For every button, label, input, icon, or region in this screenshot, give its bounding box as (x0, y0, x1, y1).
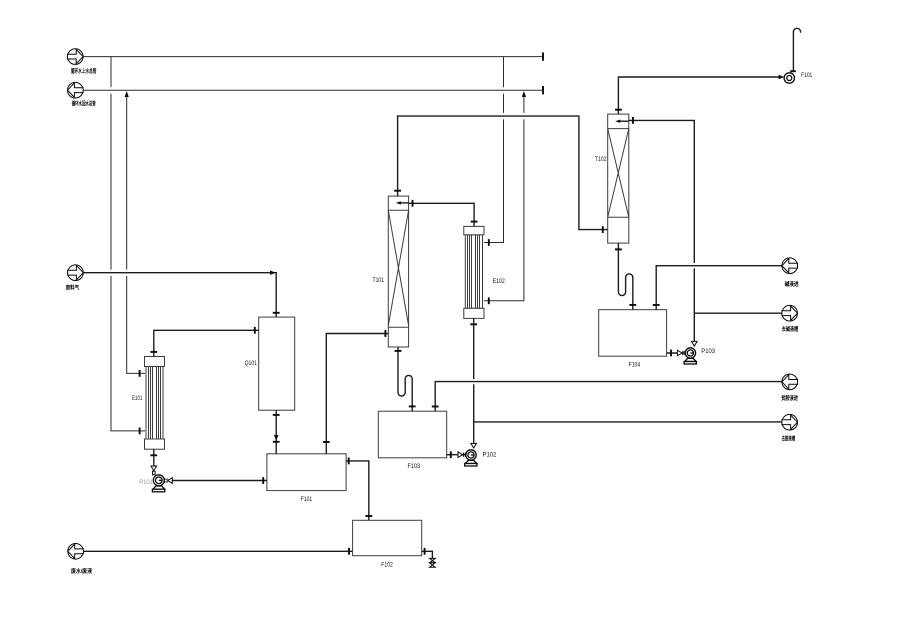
heat exchanger E101 (145, 357, 165, 450)
label E101 (132, 395, 143, 402)
wire: E102 shell bottom outlet riser to return header (484, 91, 526, 304)
label F102 (381, 561, 393, 568)
label T101 (373, 277, 385, 284)
svg-text:P101: P101 (139, 479, 153, 486)
pump P102 (465, 450, 477, 466)
off-page connector: cooling water supply (left top) (68, 49, 84, 65)
wire: F101 right nozzle to F102 top (346, 458, 372, 521)
svg-text:T102: T102 (595, 156, 607, 163)
label F103 (408, 463, 421, 470)
pump P103 (684, 348, 696, 364)
svg-text:F101: F101 (801, 72, 812, 79)
svg-text:T101: T101 (373, 277, 385, 284)
wire: cooling water return header (83, 86, 543, 94)
drain funnel at F102 outlet (430, 558, 436, 567)
svg-text:F102: F102 (381, 561, 393, 568)
vessel F104 (599, 310, 667, 357)
label P102 (483, 451, 497, 458)
packed column T101 (388, 196, 408, 347)
wire: Q101 bottom to F101 top (273, 410, 280, 454)
svg-text:去碱液槽: 去碱液槽 (782, 325, 799, 333)
off-page connector: waste water out (left bottom) (68, 544, 84, 560)
wire: T102 overhead to blower (615, 75, 784, 114)
label F104 (629, 361, 641, 368)
svg-text:原料气: 原料气 (66, 283, 80, 291)
svg-text:P102: P102 (483, 451, 497, 458)
svg-text:贫胺液进: 贫胺液进 (780, 394, 798, 402)
label: cooling water return (72, 100, 96, 108)
label: cooling water supply (71, 67, 97, 75)
svg-text:F103: F103 (408, 463, 421, 470)
wire: T101 top vapor to E102 (409, 200, 478, 227)
wire: riser from supply header to E101 shell bottom (111, 57, 145, 435)
wire: T102 bottoms seal loop to F104 (615, 243, 636, 310)
off-page connector: amine out (right, y=422) (782, 414, 798, 430)
svg-text:Q101: Q101 (245, 360, 258, 367)
vessel F102 (353, 520, 422, 555)
label F101 (blower) (801, 72, 812, 79)
label F101 (301, 496, 313, 503)
svg-text:E102: E102 (493, 278, 505, 285)
wire: caustic in from right connector to F104 (653, 266, 782, 310)
label Q101 (245, 360, 258, 367)
vessel F103 (378, 411, 446, 458)
wire: F102 right nozzle to drain (422, 548, 433, 559)
wire: T101 bottoms seal loop to F103 (395, 347, 416, 411)
wire: lean amine from right connector to F103 (432, 382, 782, 412)
wire: P103 discharge branch to right connector (694, 312, 782, 314)
label: lean amine in (780, 394, 798, 402)
label: waste water (71, 567, 93, 575)
wire: F104 outlet to pump P103 (667, 350, 686, 357)
svg-text:碱液进: 碱液进 (785, 280, 800, 288)
label: caustic in (785, 280, 800, 288)
wire: riser from supply header to E102 shell top (484, 57, 504, 246)
wire: cooling water supply header (83, 52, 543, 60)
label: feed gas (66, 283, 80, 291)
off-page connector: cooling water return (left) (68, 82, 84, 98)
label T102 (595, 156, 607, 163)
label P101 (139, 479, 153, 486)
svg-text:废水/废液: 废水/废液 (71, 567, 93, 575)
wire: F101 left nozzle to pump P101 (164, 477, 267, 484)
wire: E102 bottom outlet down to P102 and branch to battery limit (470, 318, 477, 448)
wire: bottom line to F102 (83, 548, 352, 555)
wire: E101 top to Q101 left nozzle (150, 327, 258, 357)
wire: amine product line to right connector (474, 421, 782, 423)
svg-text:去胺液槽: 去胺液槽 (782, 434, 796, 442)
off-page connector: lean amine in (right, y=382) (782, 374, 798, 390)
wire: T101 overhead to T102 bottom feed (394, 116, 608, 233)
svg-text:P103: P103 (701, 348, 715, 355)
wire: E101 shell top outlet riser to return header (125, 91, 145, 377)
blower F101 (top right) (784, 28, 801, 83)
reactor Q101 (259, 317, 295, 410)
off-page connector: feed gas (left middle) (68, 265, 84, 281)
wire: F101 top-right to T101 feed nozzle (323, 330, 388, 454)
wire: feed gas line to Q101 top (83, 271, 279, 318)
packed column T102 (608, 114, 629, 243)
wire: F103 outlet to pump P102 (447, 451, 466, 458)
wire: E101 bottom to P101 suction (150, 449, 157, 475)
svg-text:F101: F101 (301, 496, 313, 503)
svg-text:循环水上水总管: 循环水上水总管 (71, 67, 97, 75)
vessel F101 (267, 454, 346, 491)
off-page connector: caustic in (right, y=266) (782, 258, 798, 274)
svg-text:循环水回水总管: 循环水回水总管 (72, 100, 96, 108)
svg-text:E101: E101 (132, 395, 143, 402)
label: amine out (782, 434, 796, 442)
label: caustic out (782, 325, 799, 333)
wire: reflux from P103 riser to T102 top (629, 117, 697, 346)
pump P101 (152, 475, 164, 492)
off-page connector: caustic out (right, y=313) (782, 305, 798, 321)
svg-text:F104: F104 (629, 361, 641, 368)
label E102 (493, 278, 505, 285)
heat exchanger E102 (464, 226, 484, 318)
label P103 (701, 348, 715, 355)
